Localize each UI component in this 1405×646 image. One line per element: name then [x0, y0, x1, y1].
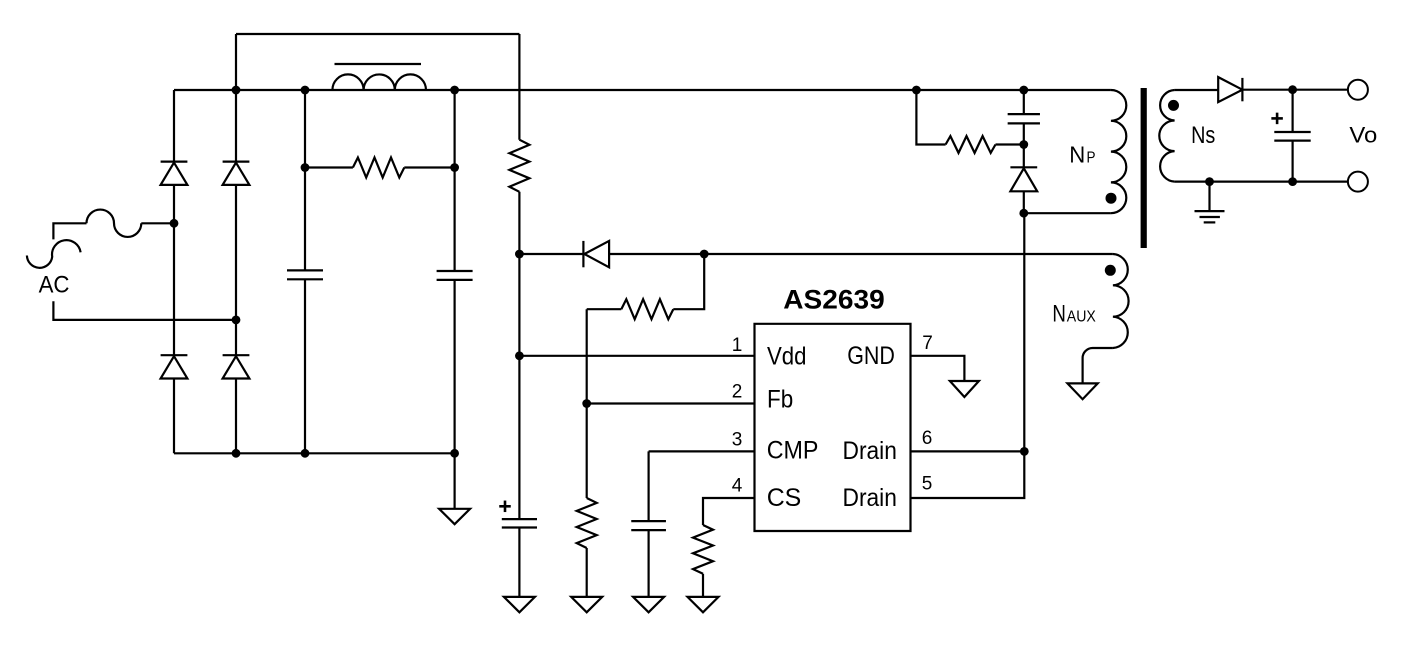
svg-text:3: 3 [732, 429, 743, 450]
svg-text:AUX: AUX [1067, 309, 1096, 326]
svg-text:P: P [1087, 150, 1096, 167]
svg-text:Vo: Vo [1349, 123, 1377, 148]
svg-text:GND: GND [847, 342, 895, 370]
svg-text:5: 5 [922, 473, 933, 494]
svg-text:Vdd: Vdd [767, 342, 807, 370]
svg-text:Ns: Ns [1191, 122, 1215, 149]
svg-text:6: 6 [922, 428, 933, 449]
svg-text:CS: CS [767, 484, 802, 512]
svg-text:Fb: Fb [767, 386, 793, 414]
svg-text:N: N [1052, 301, 1066, 328]
svg-text:Drain: Drain [843, 437, 897, 465]
svg-text:Drain: Drain [843, 484, 897, 512]
svg-text:CMP: CMP [767, 437, 819, 465]
svg-text:2: 2 [732, 381, 743, 402]
svg-text:AS2639: AS2639 [783, 285, 884, 315]
svg-text:N: N [1069, 142, 1085, 168]
svg-text:AC: AC [39, 272, 70, 299]
svg-text:7: 7 [922, 333, 933, 354]
svg-text:4: 4 [732, 476, 743, 497]
svg-text:1: 1 [732, 335, 743, 356]
